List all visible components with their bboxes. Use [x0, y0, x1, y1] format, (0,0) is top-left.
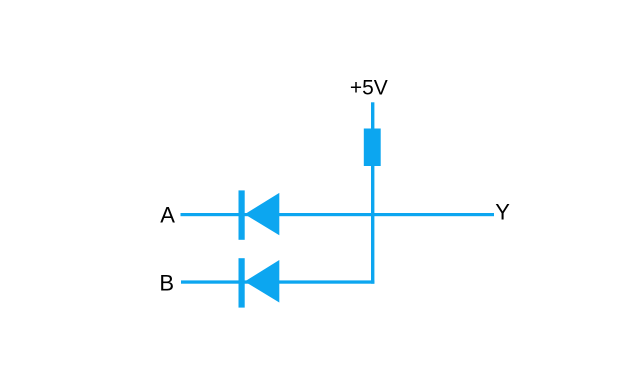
svg-text:+5V: +5V: [350, 77, 388, 100]
svg-text:A: A: [160, 203, 175, 228]
svg-text:Y: Y: [495, 200, 510, 225]
svg-text:B: B: [159, 271, 174, 296]
